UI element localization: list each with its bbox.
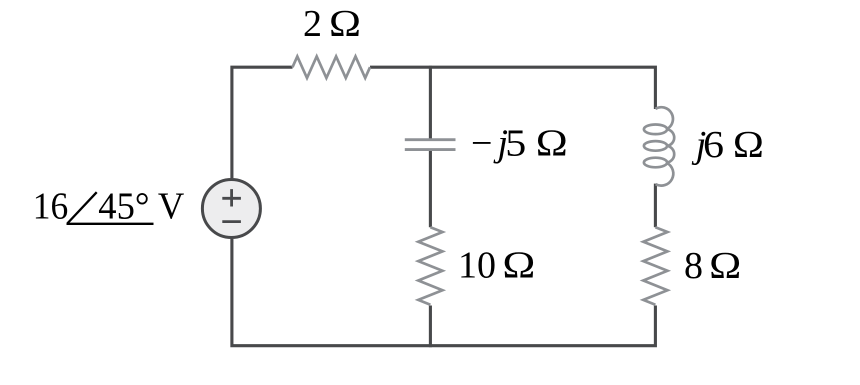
voltage source minus sign [222,220,241,223]
svg-text:Ω: Ω [733,124,764,166]
resistor 8 ohm (vertical zigzag, right branch) [643,227,667,305]
resistor 10 ohm (vertical zigzag, middle branch) [418,227,442,305]
capacitor C = -j5 ohm : bottom plate [405,148,456,151]
wire: 10-ohm resistor to bottom wire [429,306,432,348]
svg-text:Ω: Ω [536,122,568,164]
voltage source plus sign [222,189,241,206]
inductor L = j6 ohm : top arc [655,107,673,129]
inductor bottom arc [656,163,674,186]
svg-text:Ω: Ω [502,244,535,286]
svg-text:6: 6 [703,124,724,166]
svg-text:Ω: Ω [329,3,361,45]
wire: left vertical upper + top-left segment [232,67,293,178]
inductor loop 3 [644,158,667,168]
voltage source VS circle [202,180,260,238]
svg-text:5: 5 [505,122,526,164]
wire: capacitor bottom plate to 10-ohm resistor [429,150,432,228]
wire: inductor bottom to 8-ohm resistor [654,184,657,228]
wire: left vertical lower + bottom wire + right vertical lower [232,239,656,346]
svg-text:10: 10 [458,244,496,286]
inductor loop 1 [644,125,667,135]
inductor loop 2 [644,141,667,151]
wire: top segment right of 2-ohm resistor + right vertical down to inductor [370,67,655,109]
svg-text:Ω: Ω [709,245,741,287]
svg-text:−: − [471,122,492,164]
capacitor C = -j5 ohm : top plate [405,138,456,141]
wire: middle branch from top wire to capacitor top plate [429,66,432,140]
label: angle symbol underline [67,223,154,225]
svg-text:16: 16 [33,186,69,228]
svg-text:8: 8 [684,245,703,287]
inductor connecting arc 1 [667,129,674,146]
inductor connecting arc 2 [667,146,674,163]
label: angle symbol diagonal stroke [67,192,96,223]
svg-text:45° V: 45° V [98,186,185,228]
resistor R=2 ohm (horizontal zigzag) [293,56,371,78]
svg-text:2: 2 [303,3,322,45]
